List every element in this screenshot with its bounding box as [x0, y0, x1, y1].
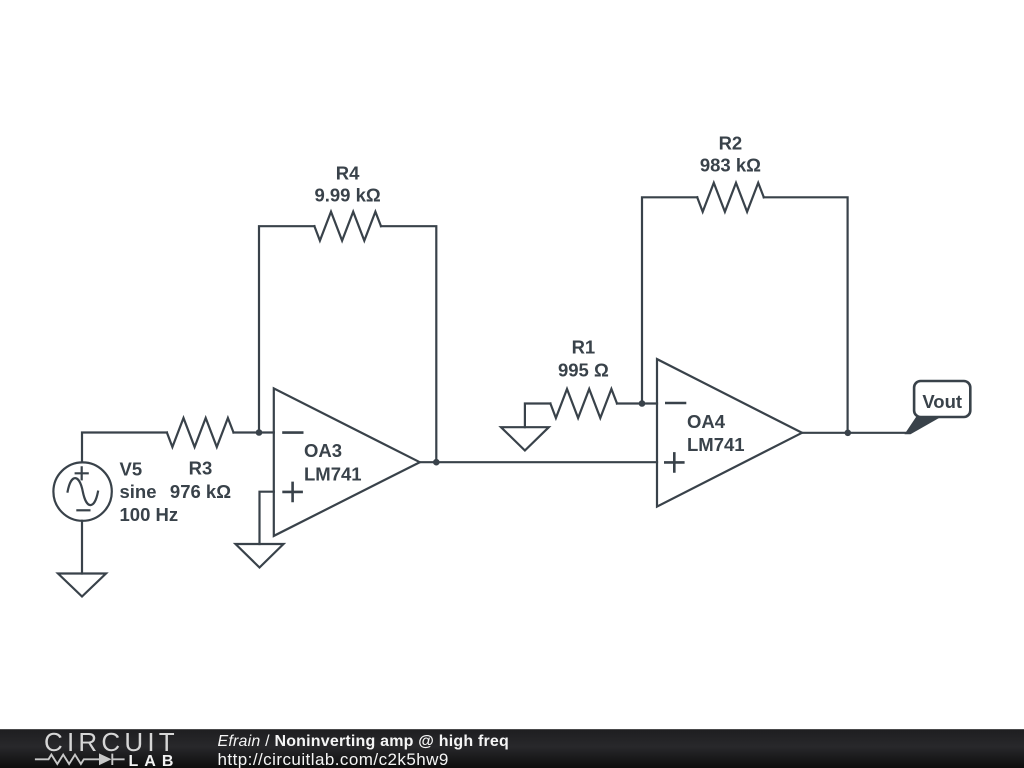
svg-text:9.99 kΩ: 9.99 kΩ	[314, 184, 380, 205]
svg-text:OA3: OA3	[304, 440, 342, 461]
svg-text:Efrain / Noninverting amp @ hi: Efrain / Noninverting amp @ high freq	[218, 733, 509, 750]
svg-text:OA4: OA4	[687, 411, 726, 432]
svg-text:sine: sine	[120, 481, 157, 502]
svg-text:100 Hz: 100 Hz	[120, 504, 179, 525]
svg-text:Vout: Vout	[922, 391, 962, 412]
svg-text:976 kΩ: 976 kΩ	[170, 481, 231, 502]
svg-text:LAB: LAB	[129, 753, 180, 768]
svg-text:995 Ω: 995 Ω	[558, 359, 609, 380]
svg-text:LM741: LM741	[304, 463, 362, 484]
svg-text:LM741: LM741	[687, 434, 745, 455]
svg-text:R3: R3	[189, 458, 213, 479]
svg-text:983 kΩ: 983 kΩ	[700, 155, 761, 176]
svg-text:R4: R4	[336, 162, 360, 183]
svg-text:R2: R2	[719, 133, 743, 154]
svg-text:V5: V5	[120, 458, 143, 479]
svg-text:http://circuitlab.com/c2k5hw9: http://circuitlab.com/c2k5hw9	[218, 750, 449, 768]
svg-text:R1: R1	[572, 336, 596, 357]
